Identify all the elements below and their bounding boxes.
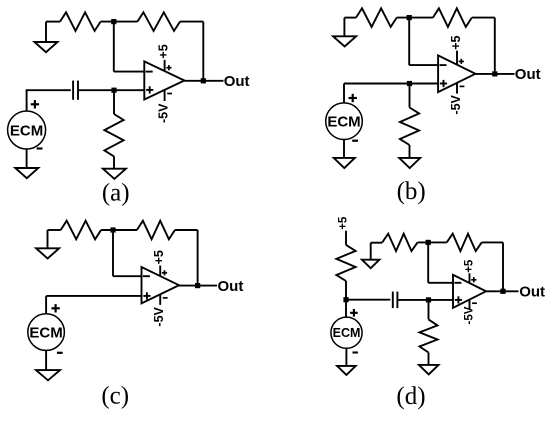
op-amp U1c V- power pin bbox=[159, 294, 161, 305]
wire op-amp output to Out (b) bbox=[475, 73, 514, 75]
svg-text:Out: Out bbox=[224, 73, 250, 90]
wire ground to R1c bbox=[48, 229, 61, 231]
wire feedback vertical to output node (c) bbox=[197, 230, 199, 286]
wire Nd2 to cap (d) bbox=[346, 299, 390, 301]
junction output node (d) bbox=[500, 289, 505, 294]
ground G1b bbox=[333, 36, 356, 46]
svg-text:ECM: ECM bbox=[333, 326, 361, 340]
wire op-amp output to Out (d) bbox=[486, 290, 519, 292]
wire R1d to node Nd1 bbox=[418, 241, 447, 243]
ground G2d (under ECM d) bbox=[337, 366, 356, 375]
svg-text:Out: Out bbox=[519, 284, 545, 301]
op-amp U1c V+ power pin bbox=[159, 266, 161, 277]
svg-text:-5V: -5V bbox=[157, 103, 171, 123]
wire R2b to output column bbox=[472, 17, 495, 19]
resistor R3b (bias to ground) bbox=[400, 108, 419, 146]
op-amp U1d V- pin minus mark bbox=[472, 302, 477, 304]
svg-text:-5V: -5V bbox=[152, 306, 166, 326]
wire ECM top up (c) bbox=[45, 296, 47, 314]
ECM microphone source V1a circle bbox=[8, 111, 46, 149]
resistor R3d (bias to ground) bbox=[420, 319, 438, 352]
wire ECM bottom to ground bbox=[26, 149, 28, 168]
junction node Nc1 bbox=[110, 227, 115, 232]
ECM V1b minus polarity bbox=[352, 140, 358, 142]
op-amp U1a V+ power pin bbox=[164, 60, 166, 71]
op-amp U1b triangle bbox=[438, 55, 475, 92]
op-amp U1d non-inverting input marker bbox=[455, 299, 462, 301]
resistor R1d bbox=[382, 234, 417, 251]
junction node Nb1 bbox=[407, 15, 412, 20]
wire Nb1 down to inverting input bbox=[408, 18, 410, 66]
op-amp U1d V- power pin bbox=[469, 300, 471, 310]
resistor R2c (feedback) bbox=[137, 221, 175, 240]
svg-text:(b): (b) bbox=[397, 178, 426, 205]
op-amp U1b V+ pin plus mark bbox=[459, 60, 464, 62]
op-amp U1d inverting input marker bbox=[454, 282, 461, 284]
wire R1b to node Nb1 bbox=[397, 17, 433, 19]
wire R3a to ground bbox=[113, 156, 115, 168]
resistor R2d (feedback) bbox=[447, 234, 482, 251]
svg-text:-5V: -5V bbox=[449, 94, 463, 114]
wire G1b stem bbox=[343, 18, 345, 37]
op-amp U1d triangle bbox=[453, 275, 486, 308]
svg-text:+5: +5 bbox=[152, 250, 166, 264]
wire ECM bottom to ground (b) bbox=[343, 140, 345, 158]
wire G1a stem bbox=[45, 22, 47, 42]
ground G2c (under ECM c) bbox=[36, 370, 60, 380]
junction node Nd1 bbox=[426, 240, 431, 245]
ECM V1d plus polarity bbox=[350, 312, 358, 314]
wire Nb2 down to R3b bbox=[409, 84, 411, 108]
resistor R1a bbox=[60, 12, 101, 31]
op-amp U1a non-inverting input marker bbox=[146, 89, 153, 91]
ECM microphone source V1d circle bbox=[331, 317, 362, 348]
wire cap to non-inverting input bbox=[78, 89, 144, 91]
op-amp U1b V- power pin bbox=[456, 83, 458, 94]
resistor R2b (feedback) bbox=[433, 8, 472, 27]
resistor R1b bbox=[356, 8, 397, 27]
ground G3a bbox=[103, 169, 126, 179]
wire ECM to non-inverting input (c) bbox=[46, 295, 141, 297]
op-amp U1c inverting input marker bbox=[143, 275, 150, 277]
wire into inverting input bbox=[114, 71, 145, 73]
ECM V1c minus polarity bbox=[57, 352, 63, 354]
op-amp U1a V- pin minus mark bbox=[167, 93, 172, 95]
resistor R1c bbox=[61, 221, 101, 240]
ECM V1c plus polarity bbox=[51, 307, 59, 309]
wire op-amp output to Out bbox=[184, 80, 223, 82]
resistor R2a (feedback) bbox=[137, 12, 180, 31]
wire R4d down to node Nd2 and ECM bbox=[345, 281, 347, 317]
wire ground to R1b bbox=[344, 17, 356, 19]
junction output node (a) bbox=[201, 78, 206, 83]
svg-text:(c): (c) bbox=[101, 382, 129, 409]
wire R1a to node Na1 bbox=[101, 21, 138, 23]
ECM V1d minus polarity bbox=[353, 351, 358, 353]
wire ground to R1d bbox=[371, 242, 383, 244]
wire +5 to R4d bbox=[345, 231, 347, 245]
svg-text:+5: +5 bbox=[463, 259, 475, 273]
junction output node (b) bbox=[492, 71, 497, 76]
junction node Na2 bbox=[111, 88, 116, 93]
op-amp U1b V+ power pin bbox=[456, 51, 458, 65]
capacitor C1d bbox=[392, 292, 394, 309]
svg-text:+5: +5 bbox=[157, 44, 171, 58]
svg-text:(a): (a) bbox=[102, 179, 130, 206]
op-amp U1c V- pin minus mark bbox=[163, 297, 168, 299]
wire feedback vertical to output node (b) bbox=[494, 18, 496, 74]
wire ground to R1a bbox=[46, 21, 60, 23]
wire op-amp output to Out (c) bbox=[179, 285, 217, 287]
junction node Nd2 (ECM top) bbox=[343, 297, 348, 302]
op-amp U1a V- power pin bbox=[164, 90, 166, 101]
op-amp U1b inverting input marker bbox=[440, 64, 447, 66]
op-amp U1c non-inverting input marker bbox=[143, 295, 150, 297]
ground G1c bbox=[36, 248, 59, 258]
ECM V1a minus polarity bbox=[37, 147, 43, 149]
svg-text:Out: Out bbox=[218, 278, 244, 295]
resistor R4d (bias from +5) bbox=[336, 245, 355, 281]
wire Nd1 down to inverting input (d) bbox=[427, 242, 429, 282]
junction node Nd3 bbox=[426, 297, 431, 302]
op-amp U1a triangle bbox=[144, 61, 184, 99]
op-amp U1a inverting input marker bbox=[146, 71, 153, 73]
capacitor C1a bbox=[72, 81, 74, 100]
wire R2a to output column bbox=[180, 21, 203, 23]
wire R1c to node Nc1 bbox=[101, 229, 137, 231]
op-amp U1c V+ pin plus mark bbox=[162, 272, 167, 274]
wire ECM top up (b) bbox=[343, 84, 345, 103]
svg-text:ECM: ECM bbox=[10, 122, 43, 139]
svg-text:Out: Out bbox=[515, 66, 541, 83]
op-amp U1b non-inverting input marker bbox=[440, 83, 447, 85]
wire feedback vertical to output node (d) bbox=[502, 242, 504, 291]
op-amp U1c triangle bbox=[142, 267, 180, 303]
svg-text:+5: +5 bbox=[337, 216, 349, 230]
wire feedback vertical to output node bbox=[202, 22, 204, 81]
svg-text:-5V: -5V bbox=[463, 306, 475, 324]
ground G2b (under ECM b) bbox=[334, 158, 355, 168]
svg-text:ECM: ECM bbox=[29, 325, 62, 342]
ground G3d bbox=[419, 365, 439, 375]
svg-text:ECM: ECM bbox=[327, 114, 360, 131]
ECM microphone source V1c circle bbox=[28, 314, 65, 351]
wire into inverting input (b) bbox=[409, 64, 438, 66]
ECM microphone source V1b circle bbox=[326, 103, 363, 140]
wire into inverting input (c) bbox=[113, 275, 142, 277]
svg-text:+5: +5 bbox=[449, 36, 463, 50]
wire into inverting input (d) bbox=[428, 282, 453, 284]
ground G1d (feedback input ground) bbox=[362, 260, 380, 269]
resistor R3a (bias to ground) bbox=[104, 114, 123, 156]
wire R3b to ground bbox=[409, 145, 411, 158]
ground G2a (under ECM) bbox=[15, 168, 38, 178]
wire ECM top to cap bbox=[27, 90, 71, 111]
ECM V1b plus polarity bbox=[349, 97, 357, 99]
junction node Na1 bbox=[111, 19, 116, 24]
junction node Nb2 bbox=[407, 81, 412, 86]
wire Na2 down to R3a bbox=[113, 90, 115, 114]
junction output node (c) bbox=[195, 283, 200, 288]
wire Na1 down to inverting input bbox=[113, 22, 115, 72]
wire Nc1 down to inverting input bbox=[112, 230, 114, 276]
wire ECM bottom to ground (d) bbox=[345, 348, 347, 366]
wire R2c to output column bbox=[175, 229, 198, 231]
wire G1d stem bbox=[370, 243, 372, 260]
op-amp U1a V+ pin plus mark bbox=[166, 67, 171, 69]
ground G1a (input resistor ground) bbox=[35, 42, 58, 52]
wire ECM to non-inverting input (b) bbox=[344, 83, 438, 85]
wire Nd3 down to R3d bbox=[428, 300, 430, 320]
op-amp U1b V- pin minus mark bbox=[460, 85, 465, 87]
ECM V1a plus polarity bbox=[31, 103, 39, 105]
op-amp U1d V+ pin plus mark bbox=[471, 279, 476, 281]
svg-text:(d): (d) bbox=[396, 383, 425, 410]
ground G3b bbox=[399, 158, 420, 168]
wire G1c stem bbox=[47, 230, 49, 248]
wire ECM bottom to ground (c) bbox=[45, 350, 47, 370]
wire R3d to ground bbox=[428, 353, 430, 365]
op-amp U1d V+ power pin bbox=[469, 273, 471, 283]
wire R2d to output column (d) bbox=[482, 241, 503, 243]
wire cap to non-inverting input (d) bbox=[397, 299, 453, 301]
